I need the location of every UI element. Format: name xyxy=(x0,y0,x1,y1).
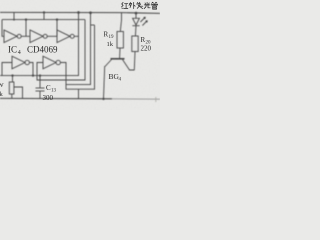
wire LED emission arrows xyxy=(140,18,145,23)
node junction low bus x33 xyxy=(32,74,34,76)
resistor W1 trimmer vertical xyxy=(12,76,14,82)
wire connector rail to bus at x14 xyxy=(13,12,15,19)
op-amp inverter 3 of IC4 xyxy=(57,30,70,43)
op-amp inverter 5 of IC4 xyxy=(43,56,56,69)
wire v2 from bus end down and left to inverter5 input xyxy=(37,20,85,80)
char 发 xyxy=(137,2,143,8)
diode LED infrared emitter xyxy=(135,13,137,18)
char 管 xyxy=(152,2,158,9)
resistor R20 xyxy=(132,36,138,52)
wire v3 down left and up to inverter5 output xyxy=(61,13,91,85)
wire top supply rail xyxy=(0,12,160,13)
op-amp inverter 4 of IC4 xyxy=(12,56,25,69)
wire vertical v1 down to low bus xyxy=(0,13,79,76)
node junction rail x79 xyxy=(77,11,80,14)
node junction rail x136 xyxy=(135,12,138,15)
node junction ground x103.5 xyxy=(102,98,104,100)
node junction x57 on bus xyxy=(56,18,58,20)
wire inverter3 output stub xyxy=(74,35,78,37)
wire riser to inverter 1 input xyxy=(2,20,4,37)
wire drop to ground rail xyxy=(78,89,80,99)
wire emitter down to ground xyxy=(104,66,105,99)
wire row2 input from left edge xyxy=(2,63,12,76)
wire bottom ground rail xyxy=(0,97,112,99)
wire tap bus to inverter1-2 wire xyxy=(25,20,27,37)
op-amp inverter 1 of IC4 xyxy=(4,30,17,43)
wire second bus line xyxy=(2,19,85,21)
op-amp inverter 2 of IC4 xyxy=(30,30,43,43)
wire trimmer wiper loop xyxy=(14,87,23,99)
wire drop from rail corner to R19 xyxy=(120,13,121,32)
node junction rail x90.5 xyxy=(89,11,92,14)
node junction low bus x12.5 xyxy=(11,74,13,76)
wire R20 down to transistor collector xyxy=(133,52,136,71)
wire inverter2 out to inverter3 in xyxy=(47,35,57,37)
capacitor C13 xyxy=(39,76,41,88)
node junction x26 on bus xyxy=(25,18,27,20)
wire connector rail to bus at x44 xyxy=(43,13,45,20)
wire inverter4 output down to low bus xyxy=(30,63,34,76)
char 外 xyxy=(129,2,135,8)
wire R19 to transistor base xyxy=(119,48,121,58)
wire inverter1 out to inverter2 in xyxy=(21,35,30,37)
label 红外发光管 (drawn strokes, IR emitting diode caption) xyxy=(122,2,158,9)
char 光 xyxy=(144,2,150,8)
transistor BG4 xyxy=(111,58,125,60)
faint page artifact xyxy=(155,97,157,102)
node junction low bus x40 xyxy=(39,74,41,76)
wire tap bus to inverter3 input xyxy=(56,20,58,37)
wire jog v3 to v4 xyxy=(91,24,95,26)
resistor R19 xyxy=(117,32,123,49)
char 红 xyxy=(122,2,128,8)
wire v4 nested down-left xyxy=(66,25,95,89)
